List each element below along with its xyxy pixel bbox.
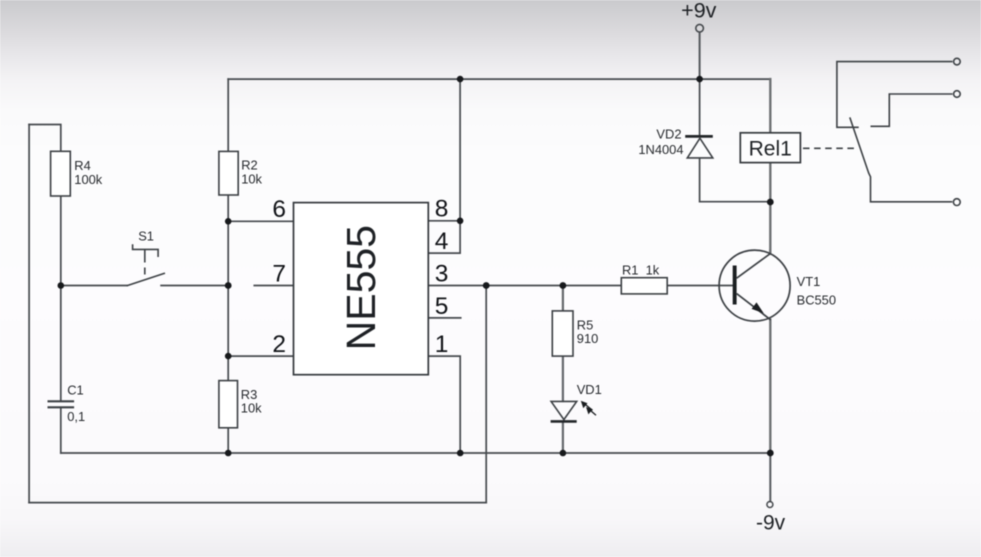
wire: left rail pin7 row to pin2 row (227, 286, 229, 357)
node contact terminal mid (954, 91, 961, 98)
op-amp U1 NE555 (294, 203, 429, 375)
wire: R1 to transistor base (667, 285, 733, 287)
svg-text:0,1: 0,1 (67, 409, 85, 424)
node pin3 R5 (560, 282, 567, 289)
node ground rail emitter (767, 450, 774, 457)
svg-text:100k: 100k (74, 172, 103, 187)
svg-text:6: 6 (272, 196, 286, 223)
wire: left rail pin2 row to R3 (227, 356, 229, 381)
wire: C1 bottom to ground rail corner (60, 408, 62, 453)
svg-text:NE555: NE555 (338, 225, 384, 350)
wire: R3 bottom to ground rail (227, 428, 229, 453)
wire: top-left link to R4 branch (29, 125, 61, 152)
switch S1 (127, 244, 165, 285)
svg-text:7: 7 (272, 261, 286, 288)
transistor Q1 VT1 (719, 250, 790, 321)
wire: VD2 vertical lower + bottom link to relay node (700, 158, 771, 202)
node contact terminal top (954, 58, 961, 65)
node +9v terminal (696, 24, 704, 32)
wire: -9v drop (769, 453, 771, 502)
svg-text:-9v: -9v (756, 511, 786, 534)
svg-text:BC550: BC550 (797, 292, 836, 307)
svg-text:8: 8 (435, 196, 449, 223)
wire: S1 row right segment (161, 285, 228, 287)
contact common pole (837, 62, 953, 128)
node contact terminal bottom (953, 199, 960, 206)
wire: relay branch vertical x=770 (769, 79, 771, 133)
wire: pin3 to R1 (428, 285, 621, 287)
resistor R1 (621, 263, 667, 294)
node left rail pin2 (225, 353, 232, 360)
wire: bottom loop horizontal (29, 502, 486, 504)
svg-text:S1: S1 (138, 229, 154, 244)
wire: collector vertical into VT1 (769, 250, 771, 253)
svg-text:3: 3 (435, 261, 449, 288)
wire: R5 to VD1 (562, 356, 564, 401)
resistor R4 (51, 151, 103, 196)
wire: pin7 stub (254, 285, 293, 287)
svg-text:R1 1k: R1 1k (622, 263, 660, 278)
wire: dashed relay link (803, 147, 856, 149)
resistor R5 (552, 311, 598, 356)
relay contacts (837, 58, 960, 205)
svg-text:Rel1: Rel1 (749, 137, 792, 160)
svg-text:1: 1 (435, 331, 449, 358)
wire: R5 drop from pin3 row (562, 286, 564, 311)
node top rail / pin8 riser (457, 76, 464, 83)
node ground rail R3 (225, 450, 232, 457)
wire: +9v drop (699, 33, 701, 79)
node ground rail pin1 (457, 450, 464, 457)
node -9v terminal (767, 502, 773, 508)
svg-text:R4: R4 (74, 158, 90, 173)
wire: pin4 stub and riser to pin8 node (428, 221, 460, 253)
svg-text:10k: 10k (241, 401, 262, 416)
svg-text:VD1: VD1 (577, 382, 602, 397)
svg-text:1N4004: 1N4004 (638, 142, 683, 157)
svg-text:VD2: VD2 (656, 127, 681, 142)
svg-text:+9v: +9v (681, 0, 717, 22)
diode VD1 LED (551, 382, 602, 421)
resistor R2 (219, 151, 263, 195)
wire: R2 top drop (227, 79, 229, 151)
wire: R2 to pin6 node (227, 195, 229, 221)
node left rail S1 row (225, 282, 232, 289)
diode VD2 1N4004 (638, 127, 712, 158)
resistor R3 (219, 381, 262, 428)
wire: feedback drop from pin3 node to bottom loop (485, 286, 487, 503)
wire: S1 row left segment (61, 285, 127, 287)
LED light arrows (581, 401, 596, 416)
wire: VD2 vertical upper (699, 79, 701, 135)
wire: pin6 stub (228, 220, 293, 222)
svg-text:VT1: VT1 (797, 274, 821, 289)
svg-text:10k: 10k (241, 171, 262, 186)
wire: pin8 stub (428, 220, 460, 222)
wire: outer left vertical (28, 125, 30, 503)
svg-text:4: 4 (435, 228, 449, 255)
wire: pin1 stub and drop to ground rail (428, 356, 460, 453)
node pin3 feedback (483, 282, 490, 289)
wire: top rail y=79 (228, 78, 770, 80)
wire: VD1 to ground rail (562, 423, 564, 453)
svg-text:5: 5 (435, 293, 449, 320)
wire: pin8/4 vertical from top rail (459, 79, 461, 221)
node ground rail VD1 (560, 450, 567, 457)
node R2 pin6 (225, 218, 232, 225)
node pin8/pin4 (457, 218, 464, 225)
node top rail / +9v (696, 76, 703, 83)
svg-text:910: 910 (577, 331, 599, 346)
wire: left rail pin6 to pin7 row (227, 221, 229, 285)
wire: R4 bottom to S1 row node (60, 196, 62, 286)
relay coil Rel1 (740, 133, 800, 163)
node VD2-relay bottom (767, 199, 774, 206)
contact moving arm (850, 117, 953, 201)
wire: pin2 stub (228, 355, 293, 357)
svg-text:2: 2 (272, 331, 286, 358)
wire: C1 branch down from S1 row (60, 286, 62, 401)
wire: emitter vertical to ground rail (769, 320, 771, 453)
svg-text:C1: C1 (67, 382, 83, 397)
node R4 C1 S1 (58, 282, 65, 289)
contact NC branch (871, 94, 953, 126)
wire: pin5 stub open (428, 317, 460, 319)
capacitor C1 (48, 382, 86, 424)
wire: ground rail (61, 452, 771, 454)
